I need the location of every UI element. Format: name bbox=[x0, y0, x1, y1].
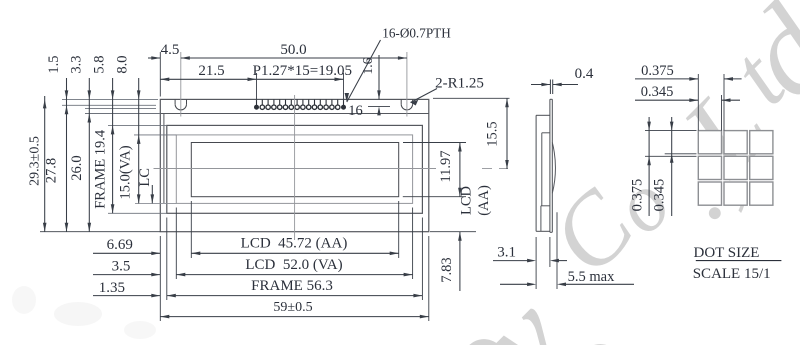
svg-text:59±0.5: 59±0.5 bbox=[273, 300, 312, 315]
dim 8.0 / 15.0(VA) column bbox=[115, 56, 141, 204]
ext AA bottom right bbox=[403, 196, 466, 198]
side view frame profile bbox=[536, 115, 550, 231]
ext module bottom right bbox=[430, 231, 476, 233]
dim 5.5 max bbox=[500, 269, 634, 286]
dim 1.6 bbox=[360, 55, 390, 115]
svg-text:LCD: LCD bbox=[459, 186, 475, 215]
16 connector pin holes bbox=[254, 99, 346, 109]
label LCD (AA) bbox=[459, 185, 493, 216]
svg-text:1.6: 1.6 bbox=[360, 57, 375, 74]
dim LCD 45.72 (AA) bbox=[191, 236, 398, 256]
pin 16 label bbox=[348, 103, 363, 119]
dim 15.5 bbox=[485, 98, 509, 169]
dim 21.5 bbox=[160, 63, 256, 81]
dim 6.69 bbox=[93, 237, 160, 255]
ext module top to side bbox=[433, 97, 510, 99]
ext VA right bottom bbox=[412, 208, 414, 280]
dim 0.4 bbox=[531, 66, 594, 94]
dim 7.83 bbox=[439, 232, 462, 291]
svg-text:27.8: 27.8 bbox=[44, 158, 60, 183]
svg-text:DOT SIZE: DOT SIZE bbox=[694, 245, 760, 261]
ext module left top bbox=[159, 52, 161, 97]
dim 59±0.5 bbox=[160, 300, 429, 318]
ext first pin bbox=[256, 73, 258, 102]
svg-text:8.0: 8.0 bbox=[115, 56, 131, 74]
ext last pin bbox=[343, 73, 345, 102]
dim 1.5 / 27.8 column bbox=[44, 56, 69, 232]
svg-text:FRAME 56.3: FRAME 56.3 bbox=[251, 278, 333, 294]
front view bezel frame bbox=[167, 125, 423, 213]
svg-text:0.375: 0.375 bbox=[630, 179, 646, 212]
ext module right bottom bbox=[428, 236, 430, 321]
label LC bbox=[137, 168, 154, 203]
dim LCD 52.0 (VA) bbox=[176, 257, 412, 277]
horizontal centerline bbox=[154, 168, 509, 170]
ext bezel top left bbox=[108, 124, 167, 126]
dim 1.35 bbox=[93, 280, 160, 297]
ext module left bottom bbox=[159, 236, 161, 321]
svg-text:29.3±0.5: 29.3±0.5 bbox=[28, 136, 43, 186]
svg-text:4.5: 4.5 bbox=[161, 42, 180, 58]
ext VA left bottom bbox=[175, 208, 177, 280]
svg-text:6.69: 6.69 bbox=[107, 237, 133, 253]
ext glass top left bbox=[85, 113, 160, 115]
caption SCALE 15/1 bbox=[693, 266, 771, 282]
svg-text:11.97: 11.97 bbox=[438, 150, 454, 182]
label 2-R1.25 bbox=[411, 76, 484, 106]
left notch centerline bbox=[180, 52, 182, 117]
svg-text:LCD 45.72 (AA): LCD 45.72 (AA) bbox=[241, 236, 348, 252]
ext top edge left bbox=[62, 98, 158, 100]
left mounting notch R1.25 bbox=[175, 99, 186, 109]
svg-text:1.35: 1.35 bbox=[99, 280, 125, 296]
dim FRAME 56.3 bbox=[167, 278, 423, 297]
svg-text:21.5: 21.5 bbox=[198, 63, 224, 79]
svg-text:0.4: 0.4 bbox=[575, 66, 594, 82]
ext dot row2 top bbox=[645, 155, 697, 157]
ext VA top left bbox=[134, 134, 176, 136]
dim 3.3 / 26.0 column bbox=[69, 56, 92, 232]
ext side left bottom bbox=[535, 237, 537, 289]
ext bulge right bottom bbox=[556, 212, 558, 289]
front view glass top edge bbox=[160, 113, 429, 115]
ext dot col2 left bbox=[723, 74, 725, 131]
svg-text:LCD 52.0 (VA): LCD 52.0 (VA) bbox=[245, 257, 342, 273]
svg-text:5.8: 5.8 bbox=[92, 56, 108, 74]
ext side glass bottom bbox=[549, 237, 551, 267]
svg-text:3.1: 3.1 bbox=[497, 245, 516, 261]
svg-text:3.5: 3.5 bbox=[112, 258, 131, 274]
svg-text:26.0: 26.0 bbox=[69, 155, 85, 180]
svg-text:P1.27*15=19.05: P1.27*15=19.05 bbox=[253, 63, 352, 79]
ext dot row1 top bbox=[645, 130, 697, 132]
side view backlight bulge bbox=[552, 142, 555, 193]
svg-text:SCALE 15/1: SCALE 15/1 bbox=[693, 266, 771, 282]
right notch centerline bbox=[406, 52, 408, 117]
front view active area (AA) bbox=[191, 143, 398, 197]
right mounting notch R1.25 bbox=[401, 99, 412, 109]
ext pin top left bbox=[62, 104, 156, 106]
svg-text:3.3: 3.3 bbox=[69, 56, 85, 74]
dim 29.3±0.5 bbox=[28, 96, 47, 232]
ext bezel left bottom bbox=[166, 218, 168, 301]
caption rule bbox=[696, 260, 782, 262]
svg-text:(AA): (AA) bbox=[476, 185, 492, 216]
svg-text:0.375: 0.375 bbox=[641, 63, 674, 79]
front view viewing area (VA) bbox=[176, 135, 412, 204]
ext dot col1 right bbox=[721, 95, 723, 131]
ext AA right bottom bbox=[398, 201, 400, 258]
svg-text:16-Ø0.7PTH: 16-Ø0.7PTH bbox=[382, 26, 451, 41]
dim 0.345 left bbox=[651, 117, 673, 216]
ext AA left bottom bbox=[190, 201, 192, 258]
ext module bottom left bbox=[40, 231, 160, 233]
dim 5.8 / FRAME 19.4 column bbox=[92, 56, 115, 214]
side view glass bbox=[550, 99, 552, 232]
dim 50.0 bbox=[181, 42, 407, 60]
svg-text:LC: LC bbox=[137, 168, 153, 187]
caption DOT SIZE bbox=[694, 245, 760, 261]
ext VA bottom left bbox=[135, 202, 176, 204]
front view outer frame bbox=[160, 99, 429, 231]
dim 3.1 bbox=[493, 245, 567, 263]
vertical centerline bbox=[294, 95, 296, 240]
ext dot row1 bottom bbox=[665, 153, 697, 155]
svg-text:FRAME 19.4: FRAME 19.4 bbox=[93, 129, 109, 209]
dim 0.345 top bbox=[635, 84, 740, 102]
dot matrix 3x3 grid bbox=[698, 131, 773, 206]
ext bezel right bottom bbox=[421, 218, 423, 301]
svg-text:2-R1.25: 2-R1.25 bbox=[435, 76, 484, 92]
svg-text:1.5: 1.5 bbox=[46, 56, 62, 74]
svg-text:50.0: 50.0 bbox=[280, 42, 306, 58]
ext pin bottom left bbox=[85, 108, 156, 110]
svg-text:0.345: 0.345 bbox=[651, 179, 667, 212]
ext dot col1 left bbox=[697, 74, 699, 131]
dim 11.97 bbox=[438, 143, 462, 197]
dim 4.5 bbox=[148, 42, 179, 60]
svg-text:16: 16 bbox=[348, 103, 363, 119]
label 16-Ø0.7PTH bbox=[345, 26, 452, 103]
side view inner step bbox=[541, 133, 550, 232]
svg-text:7.83: 7.83 bbox=[439, 257, 455, 282]
dim 0.375 top bbox=[635, 63, 742, 81]
dim 3.5 bbox=[93, 258, 160, 276]
dim 0.375 left bbox=[630, 117, 651, 216]
svg-text:15.5: 15.5 bbox=[485, 121, 501, 146]
front view glass left edge bbox=[163, 114, 165, 204]
svg-text:0.345: 0.345 bbox=[641, 84, 674, 100]
svg-text:15.0(VA): 15.0(VA) bbox=[118, 145, 134, 199]
ext AA top right bbox=[403, 142, 466, 144]
ext bezel bottom left bbox=[108, 212, 167, 214]
svg-text:5.5 max: 5.5 max bbox=[568, 269, 615, 285]
dim P1.27*15=19.05 bbox=[253, 63, 352, 81]
